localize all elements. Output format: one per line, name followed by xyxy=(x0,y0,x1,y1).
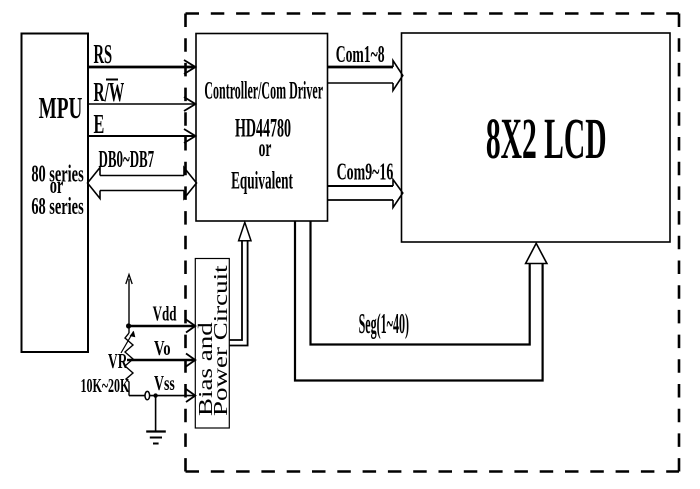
svg-text:Equivalent: Equivalent xyxy=(231,167,293,194)
svg-text:R/W: R/W xyxy=(94,76,125,107)
svg-text:E: E xyxy=(94,109,105,139)
svg-text:68 series: 68 series xyxy=(31,193,84,220)
svg-text:10K~20K: 10K~20K xyxy=(81,374,130,397)
svg-text:Power Circuit: Power Circuit xyxy=(210,265,232,416)
svg-text:Com1~8: Com1~8 xyxy=(336,42,385,68)
svg-text:Com9~16: Com9~16 xyxy=(337,160,394,186)
svg-text:8X2 LCD: 8X2 LCD xyxy=(486,106,607,170)
svg-text:VR: VR xyxy=(108,349,128,373)
svg-text:Controller/Com Driver: Controller/Com Driver xyxy=(204,78,323,105)
svg-text:Seg(1~40): Seg(1~40) xyxy=(359,308,409,339)
svg-text:Vss: Vss xyxy=(154,371,175,395)
svg-text:RS: RS xyxy=(94,39,113,69)
svg-text:Vdd: Vdd xyxy=(153,301,177,325)
svg-text:MPU: MPU xyxy=(39,90,83,125)
svg-text:or: or xyxy=(259,135,272,162)
svg-text:DB0~DB7: DB0~DB7 xyxy=(99,147,155,173)
svg-text:Vo: Vo xyxy=(154,336,171,359)
